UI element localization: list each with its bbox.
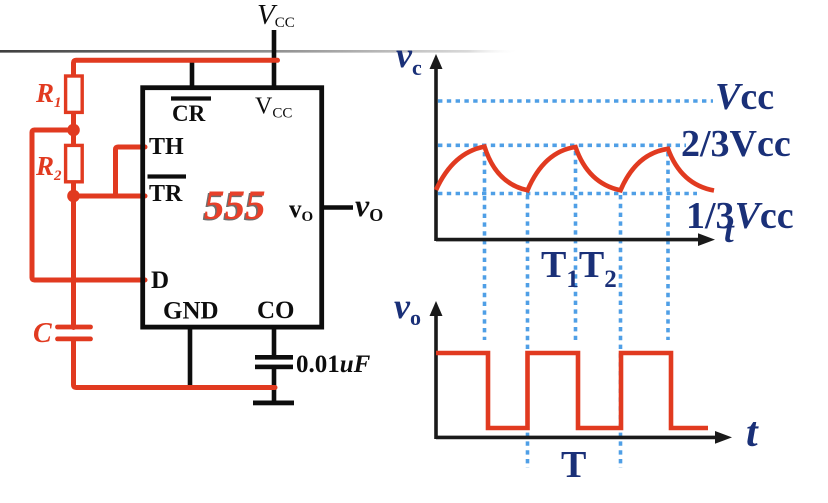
dashed level line 1/3Vcc xyxy=(438,192,697,196)
svg-text:D: D xyxy=(151,267,169,294)
ground symbol xyxy=(253,401,294,406)
node VCC supply lead (vertical black) xyxy=(272,30,277,87)
wire CO pin lead (black) xyxy=(272,327,277,356)
wire junction1 to left branch xyxy=(32,130,145,280)
dashed vertical at peak 1 xyxy=(483,152,487,340)
svg-text:1/3Vcc: 1/3Vcc xyxy=(686,195,794,237)
axis t (horizontal) xyxy=(436,238,702,242)
wire R1-R2 link xyxy=(71,112,76,146)
wire GND pin lead (black) xyxy=(188,327,193,389)
svg-text:CR: CR xyxy=(172,101,206,126)
waveform vc (red charge/discharge curve) xyxy=(436,147,714,191)
svg-text:R2: R2 xyxy=(35,151,62,184)
wire TH connection xyxy=(116,147,146,196)
wire output vO xyxy=(322,205,353,210)
red wire network xyxy=(32,60,278,387)
op-amp/timer IC 555 box xyxy=(143,88,322,327)
dashed level line 2/3Vcc xyxy=(438,144,686,148)
pin label CR (with overline) xyxy=(171,96,211,100)
wire R2 to junction2 and down to capacitor C xyxy=(71,181,76,328)
dashed vertical at trough 2 xyxy=(619,195,623,468)
resistor R2 xyxy=(66,145,83,181)
svg-text:TH: TH xyxy=(149,134,184,160)
wire TR connection xyxy=(74,194,146,199)
svg-text:555: 555 xyxy=(204,182,266,228)
capacitor 0.01uF xyxy=(255,355,293,402)
svg-text:vO: vO xyxy=(289,196,313,225)
svg-text:0.01uF: 0.01uF xyxy=(296,351,371,378)
svg-text:GND: GND xyxy=(163,298,219,325)
node junction dot 1 xyxy=(67,124,80,137)
dashed vertical at trough 1 xyxy=(526,195,530,468)
svg-text:t: t xyxy=(724,211,735,250)
svg-text:Vcc: Vcc xyxy=(715,76,774,118)
svg-text:vo: vo xyxy=(394,286,421,330)
svg-text:CO: CO xyxy=(257,297,295,324)
svg-text:R1: R1 xyxy=(35,78,62,111)
wire CR pin stub (black) xyxy=(190,58,195,87)
wire capacitor C bottom to ground rail xyxy=(74,341,276,388)
axis vo (vertical) xyxy=(434,310,438,439)
svg-text:vO: vO xyxy=(355,187,383,225)
svg-text:t: t xyxy=(746,410,759,456)
dashed vertical at peak 3 xyxy=(666,152,670,340)
svg-text:vc: vc xyxy=(396,35,422,80)
svg-text:VCC: VCC xyxy=(255,94,292,122)
svg-text:VCC: VCC xyxy=(257,0,295,31)
svg-text:T1T2: T1T2 xyxy=(541,244,617,293)
svg-text:2/3Vcc: 2/3Vcc xyxy=(681,123,791,165)
decorative gray horizontal line xyxy=(0,50,520,53)
axis vc (vertical) xyxy=(434,62,438,241)
svg-text:TR: TR xyxy=(149,181,183,207)
dashed level line Vcc xyxy=(438,99,713,103)
node junction dot 2 xyxy=(67,190,80,203)
resistor R1 xyxy=(66,76,83,112)
dashed vertical at peak 2 xyxy=(574,151,578,340)
pin label TR (with overline) xyxy=(148,174,187,178)
capacitor C (red) xyxy=(58,327,91,339)
svg-text:C: C xyxy=(33,318,52,349)
waveform vo (red square wave) xyxy=(436,353,708,428)
axis t (horizontal) xyxy=(436,436,719,440)
svg-text:T: T xyxy=(561,444,586,486)
wire top rail (red) xyxy=(74,60,278,76)
